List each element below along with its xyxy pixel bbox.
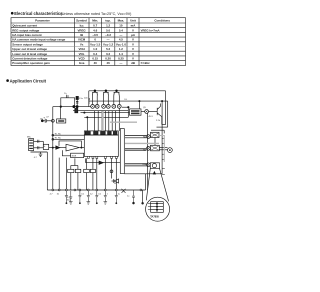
- svg-text:Application Circuit: Application Circuit: [10, 78, 47, 83]
- svg-text:dB: dB: [131, 61, 135, 65]
- svg-text:40: 40: [94, 61, 98, 65]
- svg-text:RBA: RBA: [143, 163, 148, 166]
- svg-text:Q5: Q5: [143, 107, 147, 109]
- svg-text:10: 10: [57, 193, 60, 195]
- svg-text:4.5: 4.5: [119, 38, 123, 42]
- svg-text:+: +: [43, 116, 45, 120]
- svg-text:RL NC: RL NC: [55, 133, 62, 135]
- svg-text:0: 0: [94, 38, 96, 42]
- svg-text:1: 1: [107, 193, 109, 195]
- svg-text:DL: DL: [125, 99, 129, 101]
- svg-text:—: —: [119, 61, 122, 65]
- svg-text:0.2: 0.2: [106, 52, 110, 56]
- svg-text:0.20: 0.20: [105, 57, 111, 61]
- svg-text:typ.: typ.: [105, 19, 111, 23]
- svg-text:0.1: 0.1: [81, 193, 85, 195]
- svg-text:Quiescent current: Quiescent current: [12, 24, 37, 28]
- svg-text:5.0: 5.0: [106, 28, 110, 32]
- svg-text:MIC: MIC: [27, 137, 31, 139]
- svg-text:V: V: [132, 28, 134, 32]
- svg-text:1u: 1u: [118, 193, 121, 195]
- svg-text:46: 46: [106, 61, 110, 65]
- svg-text:0.7: 0.7: [93, 24, 97, 28]
- svg-text:2.2: 2.2: [90, 193, 94, 195]
- svg-text:10: 10: [119, 24, 123, 28]
- svg-text:VOL: VOL: [79, 52, 85, 56]
- svg-text:4.7: 4.7: [34, 157, 38, 159]
- svg-text:—: —: [119, 33, 122, 37]
- svg-text:1u: 1u: [127, 195, 130, 197]
- svg-text:VREG: VREG: [77, 28, 86, 32]
- svg-text:—: —: [107, 38, 110, 42]
- svg-text:Vs: Vs: [80, 42, 84, 46]
- svg-text:HA input bias current: HA input bias current: [12, 33, 41, 37]
- svg-text:VCD: VCD: [79, 57, 85, 61]
- svg-text:1.0: 1.0: [93, 47, 97, 51]
- svg-text:V: V: [132, 52, 134, 56]
- svg-text:V: V: [132, 47, 134, 51]
- svg-text:Preamplifier operation gain: Preamplifier operation gain: [12, 61, 50, 65]
- svg-text:5.2: 5.2: [106, 47, 110, 51]
- svg-text:HA common mode input voltage r: HA common mode input voltage range: [12, 38, 65, 42]
- svg-text:Unit: Unit: [130, 19, 136, 23]
- svg-text:1.2: 1.2: [119, 47, 123, 51]
- svg-text:REG output voltage: REG output voltage: [12, 28, 39, 32]
- svg-text:47: 47: [46, 117, 49, 119]
- svg-text:TA7805: TA7805: [150, 215, 159, 218]
- svg-text:(Unless otherwise noted Ta=25°: (Unless otherwise noted Ta=25°C, Vcc=9V): [61, 12, 132, 16]
- svg-text:Max.: Max.: [118, 19, 125, 23]
- svg-text:VICM: VICM: [78, 38, 86, 42]
- svg-text:0.4: 0.4: [93, 52, 97, 56]
- svg-text:Symbol: Symbol: [76, 19, 87, 23]
- svg-text:0.15: 0.15: [92, 57, 98, 61]
- svg-text:mA: mA: [131, 24, 137, 28]
- svg-text:−0.5: −0.5: [92, 33, 98, 37]
- svg-text:V: V: [132, 57, 134, 61]
- svg-text:V: V: [132, 42, 134, 46]
- svg-text:5.4: 5.4: [119, 28, 123, 32]
- svg-text:−0.2: −0.2: [105, 33, 111, 37]
- svg-text:Gva: Gva: [79, 61, 85, 65]
- svg-text:1k: 1k: [64, 93, 67, 95]
- svg-text:Vcc-1.2: Vcc-1.2: [103, 42, 114, 46]
- svg-text:VOH: VOH: [78, 47, 84, 51]
- svg-text:4.7: 4.7: [50, 193, 54, 195]
- svg-text:+: +: [44, 145, 46, 148]
- svg-text:45.3: 45.3: [149, 116, 154, 118]
- svg-text:RL NC: RL NC: [55, 138, 62, 140]
- svg-text:VREG Io=7mA: VREG Io=7mA: [141, 28, 160, 32]
- svg-text:1.4: 1.4: [119, 52, 123, 56]
- svg-text:Upper out H level voltage: Upper out H level voltage: [12, 47, 47, 51]
- svg-text:10u: 10u: [67, 200, 71, 202]
- svg-text:V: V: [132, 38, 134, 42]
- svg-text:f=1kHz: f=1kHz: [141, 61, 151, 65]
- svg-text:2.2k: 2.2k: [156, 120, 161, 122]
- svg-text:Conditions: Conditions: [154, 19, 170, 23]
- svg-text:IB: IB: [80, 33, 83, 37]
- svg-text:0.1: 0.1: [98, 193, 102, 195]
- svg-text:1.2: 1.2: [106, 24, 110, 28]
- svg-text:Min.: Min.: [92, 19, 98, 23]
- svg-text:Rx: Rx: [114, 183, 118, 185]
- svg-text:4.6: 4.6: [93, 28, 97, 32]
- svg-text:Vcc-1.5: Vcc-1.5: [90, 42, 101, 46]
- svg-text:0.25: 0.25: [118, 57, 124, 61]
- svg-text:Sensor output voltage: Sensor output voltage: [12, 42, 43, 46]
- svg-text:100: 100: [84, 98, 88, 100]
- svg-text:Icc: Icc: [80, 24, 84, 28]
- svg-text:μA: μA: [131, 33, 136, 37]
- svg-text:Electrical characteristics: Electrical characteristics: [14, 11, 63, 16]
- svg-text:Current detection voltage: Current detection voltage: [12, 57, 47, 61]
- svg-text:Vcc-1.0: Vcc-1.0: [116, 42, 127, 46]
- svg-text:Lower out H level voltage: Lower out H level voltage: [12, 52, 47, 56]
- svg-text:Parameter: Parameter: [35, 19, 51, 23]
